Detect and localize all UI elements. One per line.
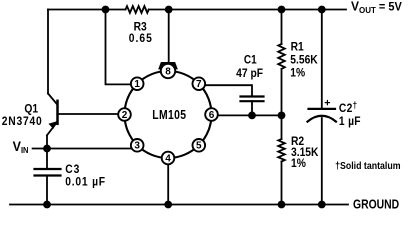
svg-text:R1: R1 — [291, 41, 304, 54]
svg-text:2: 2 — [122, 110, 128, 121]
svg-text:8: 8 — [165, 66, 171, 77]
wire C2 to ground — [321, 118, 323, 205]
svg-text:Q1: Q1 — [24, 103, 38, 116]
wire Q1 emitter down to VIN node — [46, 135, 48, 148]
junction dot top rail at R1 — [278, 6, 286, 14]
pin 2 — [118, 108, 131, 121]
pin 5 — [193, 139, 206, 152]
junction dot ground at pin4 — [164, 201, 172, 209]
svg-text:1%: 1% — [290, 67, 305, 80]
svg-text:6: 6 — [209, 110, 215, 121]
junction dot R1 R2 divider node — [278, 112, 286, 120]
svg-text:7: 7 — [196, 79, 202, 90]
svg-text:1: 1 — [134, 79, 140, 90]
pin 4 — [162, 152, 175, 165]
wire VIN rail to pin 3 — [33, 148, 132, 150]
junction dot ground at C3 — [43, 201, 51, 209]
resistor R1 — [278, 44, 285, 69]
svg-text:C1: C1 — [244, 54, 257, 67]
pin 7 — [193, 77, 206, 90]
junction dot ground at C2 — [318, 201, 326, 209]
svg-text:LM105: LM105 — [152, 109, 186, 122]
pin 1 — [131, 77, 144, 90]
transistor Q1 base bar — [56, 101, 59, 124]
wire pin6 branch to divider — [218, 114, 282, 116]
svg-text:5: 5 — [196, 141, 202, 152]
wire divider node to R2 — [281, 115, 283, 139]
capacitor C2 curved plate — [308, 116, 337, 122]
junction dot VIN node — [43, 145, 51, 153]
transistor Q1 collector lead — [48, 94, 58, 105]
svg-text:GROUND: GROUND — [353, 199, 399, 212]
wire pin7 branch — [205, 85, 252, 96]
junction dot top rail at pin8 branch — [165, 6, 173, 14]
wire pin1 branch — [106, 10, 132, 85]
capacitor C2 top plate — [309, 108, 336, 110]
resistor R2 — [278, 139, 285, 162]
wire top rail left segment — [48, 9, 126, 11]
wire top rail to R1 — [281, 10, 283, 45]
svg-text:0.01 µF: 0.01 µF — [65, 176, 106, 189]
capacitor C1 — [241, 97, 264, 102]
wire R1 to divider node — [281, 69, 283, 115]
junction dot ground at R2 — [278, 201, 286, 209]
wire pin8 branch — [168, 10, 170, 63]
svg-text:2N3740: 2N3740 — [2, 115, 43, 128]
transistor Q1 emitter arrow — [49, 122, 57, 129]
op-amp U1 LM105 body circle — [125, 71, 212, 158]
wire Q1 base to pin 2 — [58, 113, 119, 115]
wire left drop to Q1 collector — [47, 10, 49, 94]
wire top rail to C2 — [321, 10, 323, 109]
svg-text:0.65: 0.65 — [129, 32, 153, 45]
capacitor C3 — [35, 169, 61, 176]
pin 6 — [205, 108, 218, 121]
wire C3 to ground rail — [46, 176, 48, 205]
wire top rail right segment — [149, 9, 346, 11]
LM105 package tab — [159, 63, 177, 69]
transistor Q1 emitter lead — [47, 122, 58, 136]
svg-text:4: 4 — [165, 153, 171, 164]
svg-text:†Solid tantalum: †Solid tantalum — [335, 161, 400, 173]
svg-text:3: 3 — [134, 141, 140, 152]
wire R2 to ground — [281, 162, 283, 205]
junction dot top rail at pin1 branch — [102, 6, 110, 14]
pin 3 — [131, 139, 144, 152]
svg-text:5.56K: 5.56K — [290, 54, 317, 67]
svg-text:C3: C3 — [65, 164, 80, 177]
svg-text:1 µF: 1 µF — [339, 115, 361, 128]
capacitor C2 plus sign — [325, 101, 329, 105]
svg-text:47 pF: 47 pF — [236, 68, 263, 81]
wire C1 to divider node — [251, 101, 253, 115]
junction dot C1 divider node — [248, 112, 256, 120]
svg-text:1%: 1% — [291, 157, 306, 170]
resistor R3 — [126, 6, 149, 13]
pin 8 — [161, 64, 175, 78]
wire ground rail — [10, 204, 348, 206]
junction dot top rail at C2 — [318, 6, 326, 14]
wire pin4 branch to ground — [167, 164, 169, 204]
wire VIN node down to C3 — [46, 149, 48, 170]
svg-text:VOUT = 5V: VOUT = 5V — [351, 0, 402, 15]
